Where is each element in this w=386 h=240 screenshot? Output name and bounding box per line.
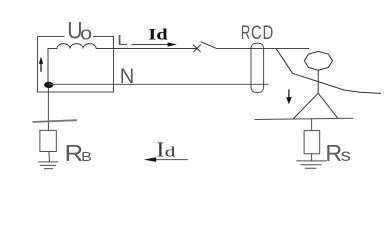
svg-text:o: o	[80, 23, 92, 44]
svg-text:B: B	[81, 149, 92, 164]
svg-text:C: C	[251, 22, 262, 44]
svg-text:L: L	[117, 32, 128, 49]
svg-text:D: D	[263, 22, 274, 44]
svg-text:N: N	[120, 64, 135, 88]
svg-text:Id: Id	[148, 26, 167, 44]
svg-text:R: R	[241, 22, 250, 44]
svg-text:d: d	[165, 145, 176, 161]
svg-text:I: I	[156, 137, 164, 161]
svg-text:s: s	[341, 145, 351, 165]
